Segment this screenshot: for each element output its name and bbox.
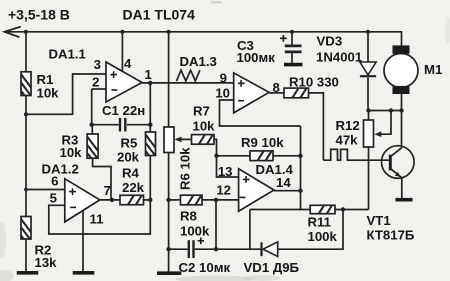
svg-text:4: 4: [124, 56, 132, 71]
svg-text:9: 9: [220, 71, 227, 86]
svg-text:R9 10k: R9 10k: [241, 135, 284, 150]
svg-text:3: 3: [94, 57, 101, 72]
svg-text:DA1.1: DA1.1: [49, 47, 86, 62]
svg-text:12: 12: [216, 183, 231, 198]
svg-text:M1: M1: [424, 62, 442, 77]
svg-text:КТ817Б: КТ817Б: [367, 228, 415, 243]
svg-text:5: 5: [50, 191, 57, 206]
svg-text:R7: R7: [193, 104, 210, 119]
svg-text:1N4001: 1N4001: [316, 50, 362, 65]
svg-text:6: 6: [51, 174, 58, 189]
svg-text:11: 11: [90, 212, 104, 227]
svg-text:47k: 47k: [336, 133, 359, 148]
svg-text:R11: R11: [308, 215, 331, 230]
svg-text:100k: 100k: [180, 224, 210, 239]
svg-text:13k: 13k: [35, 255, 58, 270]
svg-text:R5: R5: [121, 136, 138, 151]
svg-text:DA1.3: DA1.3: [180, 54, 217, 69]
svg-text:7: 7: [104, 183, 111, 198]
svg-text:R4: R4: [122, 166, 140, 181]
svg-text:10k: 10k: [37, 86, 60, 101]
svg-text:22k: 22k: [122, 180, 145, 195]
svg-text:8: 8: [273, 80, 280, 95]
svg-text:10k: 10k: [60, 145, 83, 160]
svg-text:+3,5-18 В: +3,5-18 В: [8, 7, 70, 23]
svg-text:1: 1: [145, 67, 152, 82]
svg-text:13: 13: [218, 164, 233, 179]
svg-text:100мк: 100мк: [237, 50, 276, 65]
svg-text:R10 330: R10 330: [289, 75, 339, 90]
svg-text:C2 10мк: C2 10мк: [179, 260, 231, 275]
svg-text:VD1 Д9Б: VD1 Д9Б: [244, 260, 300, 275]
svg-text:100k: 100k: [308, 229, 338, 244]
svg-text:DA1.2: DA1.2: [42, 162, 79, 177]
svg-text:14: 14: [276, 175, 291, 190]
svg-text:R12: R12: [336, 118, 360, 133]
svg-text:VT1: VT1: [367, 213, 391, 228]
svg-text:10k: 10k: [193, 119, 216, 134]
svg-text:DA1 TL074: DA1 TL074: [123, 7, 196, 23]
svg-text:R6 10k: R6 10k: [178, 147, 193, 190]
svg-text:R8: R8: [180, 209, 197, 224]
svg-text:20k: 20k: [117, 150, 140, 165]
svg-text:C1 22н: C1 22н: [102, 103, 145, 118]
svg-text:2: 2: [92, 75, 99, 90]
svg-text:10: 10: [215, 86, 230, 101]
svg-text:VD3: VD3: [317, 34, 343, 49]
